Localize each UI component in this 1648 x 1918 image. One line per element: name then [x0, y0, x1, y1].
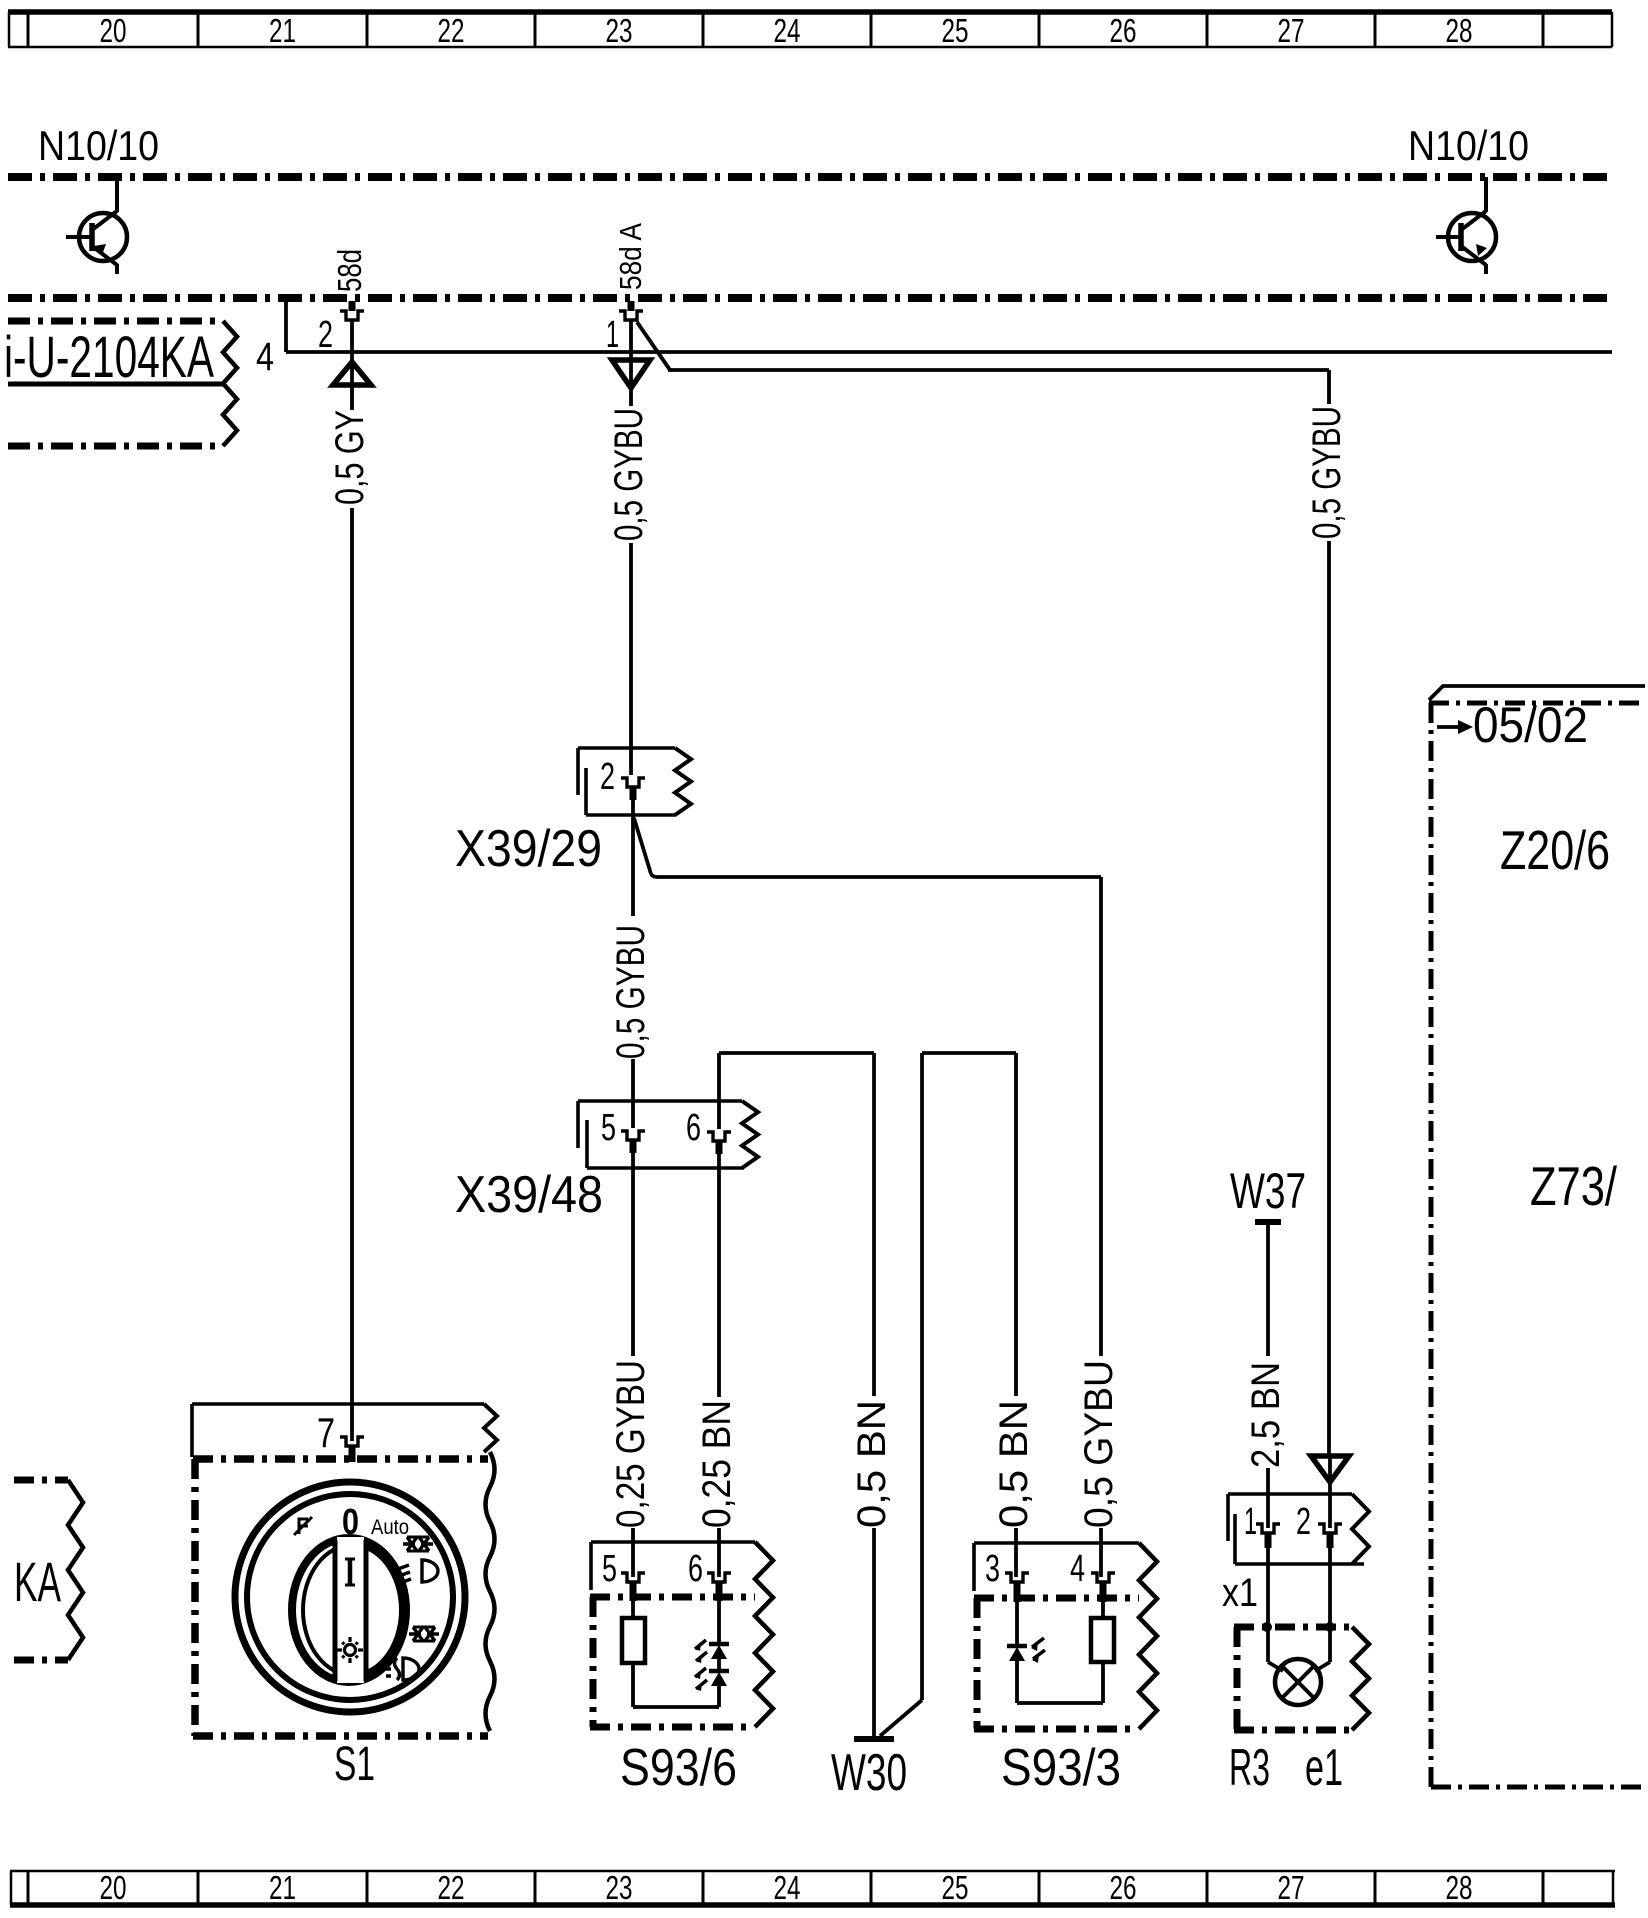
dial fog lamp icon — [386, 1658, 419, 1680]
pin 6 of X39/48 — [686, 1107, 731, 1154]
svg-text:0,5 BN: 0,5 BN — [992, 1400, 1036, 1528]
control unit box KA — [14, 1480, 83, 1660]
svg-text:20: 20 — [100, 12, 127, 49]
LED in S93/3 — [1007, 1602, 1045, 1703]
dial tail light icon lower — [409, 1627, 439, 1641]
module box right dash-dot bottom edge — [1431, 1785, 1645, 1790]
rotary dial of S1 outer rings — [235, 1482, 465, 1712]
svg-text:X39/48: X39/48 — [455, 1166, 603, 1224]
wire 0,25 BN X39/48 pin 6 to S93/6 pin 6 — [717, 1154, 721, 1577]
svg-text:e1: e1 — [1305, 1739, 1343, 1797]
bottom wire in S93/3 — [1017, 1701, 1103, 1705]
S93/3 inner dash-dot box — [974, 1598, 1139, 1729]
connector arrow down at x1 pin 2 — [1311, 1456, 1349, 1482]
svg-text:28: 28 — [1446, 12, 1473, 49]
svg-text:0,5 GYBU: 0,5 GYBU — [1077, 1360, 1121, 1528]
svg-text:23: 23 — [606, 1869, 633, 1906]
pin 3 of S93/3 — [985, 1548, 1029, 1602]
svg-text:0,25 GYBU: 0,25 GYBU — [609, 1360, 653, 1528]
svg-text:7: 7 — [317, 1409, 335, 1456]
lamp R3 dash-dot box — [1234, 1627, 1369, 1730]
dial parking light icon — [294, 1517, 312, 1535]
wire 0,5 BN from S93/3 pin 3 over to W30 terminal — [880, 1053, 1016, 1736]
connector arrow down on wire to X39/29 — [612, 360, 650, 388]
svg-text:0,5 GYBU: 0,5 GYBU — [607, 408, 651, 541]
transistor symbol right — [1436, 177, 1496, 274]
svg-text:4: 4 — [1070, 1548, 1085, 1590]
dial low beam icon — [398, 1560, 438, 1583]
svg-text:2: 2 — [318, 314, 333, 356]
svg-text:Z20/6: Z20/6 — [1500, 819, 1610, 881]
svg-text:2,5 BN: 2,5 BN — [1244, 1362, 1288, 1468]
svg-text:23: 23 — [606, 12, 633, 49]
svg-text:2: 2 — [600, 756, 615, 798]
svg-text:58d A: 58d A — [613, 223, 648, 290]
wires from x1 to lamp — [1262, 1548, 1335, 1671]
pin 1 of x1 — [1244, 1501, 1280, 1548]
svg-text:i-U-2104KA: i-U-2104KA — [4, 325, 214, 390]
transistor symbol left — [66, 177, 127, 274]
svg-text:2: 2 — [1296, 1501, 1311, 1543]
svg-text:4: 4 — [256, 335, 274, 379]
svg-text:N10/10: N10/10 — [38, 122, 159, 169]
wire branch X39/29 to S93/3 pin 4 — [634, 818, 1101, 1577]
svg-text:1: 1 — [1244, 1501, 1257, 1543]
pin 7 of S1 — [317, 1409, 364, 1462]
svg-text:Z73/: Z73/ — [1530, 1155, 1618, 1217]
svg-text:20: 20 — [100, 1869, 127, 1906]
position mark I — [348, 1559, 353, 1585]
svg-text:26: 26 — [1110, 12, 1137, 49]
svg-text:24: 24 — [774, 12, 801, 49]
S93/6 inner dash-dot box — [590, 1597, 755, 1727]
connector X39/48 box — [578, 1101, 758, 1168]
control unit N10/10 upper dash-dot border — [8, 173, 1612, 181]
svg-text:Auto: Auto — [371, 1516, 409, 1539]
arrow to 05/02 — [1437, 720, 1473, 734]
svg-text:0,5 GYBU: 0,5 GYBU — [609, 925, 653, 1059]
control unit box i-U-2104KA — [4, 321, 237, 446]
connector X39/29 box — [578, 748, 691, 815]
lamp bulb symbol R3 — [1275, 1659, 1321, 1705]
knob of S1 — [292, 1537, 406, 1683]
switch S93/3 outer box — [974, 1543, 1157, 1729]
switch S93/6 outer box — [591, 1542, 773, 1727]
bottom wire in S93/6 — [633, 1705, 719, 1709]
svg-text:6: 6 — [688, 1548, 703, 1590]
module box right dash-dot left edge — [1429, 703, 1434, 1787]
svg-text:26: 26 — [1110, 1869, 1137, 1906]
svg-text:X39/29: X39/29 — [455, 820, 602, 878]
svg-text:21: 21 — [269, 1869, 296, 1906]
svg-text:1: 1 — [606, 314, 619, 356]
svg-text:05/02: 05/02 — [1473, 697, 1588, 753]
pin 5 of S93/6 — [602, 1548, 645, 1601]
svg-text:3: 3 — [985, 1548, 1000, 1590]
svg-text:W37: W37 — [1230, 1163, 1306, 1219]
terminal 58d pin 2 socket at bus — [318, 301, 364, 356]
pin 2 of X39/29 — [600, 756, 645, 800]
light switch S1 outer box — [192, 1404, 497, 1457]
svg-text:0,25 BN: 0,25 BN — [695, 1400, 739, 1528]
wire 0,5 GYBU right vertical to x1 pin 2 — [1327, 541, 1331, 1456]
svg-text:0,5 GYBU: 0,5 GYBU — [1305, 406, 1349, 539]
svg-text:27: 27 — [1278, 1869, 1305, 1906]
resistor in S93/6 — [622, 1601, 645, 1707]
connector x1 box — [1228, 1494, 1369, 1564]
bottom coordinate ruler — [10, 1869, 1615, 1906]
svg-text:24: 24 — [774, 1869, 801, 1906]
pin 4 of S93/3 — [1070, 1548, 1115, 1602]
wire branch from pin 1 diagonal to horizontal net — [637, 322, 1329, 404]
svg-text:S1: S1 — [334, 1738, 375, 1791]
svg-text:25: 25 — [942, 1869, 969, 1906]
svg-text:0,5 GY: 0,5 GY — [328, 410, 372, 505]
terminal 58d A pin 1 socket at bus — [606, 301, 643, 356]
svg-text:W30: W30 — [831, 1744, 907, 1802]
svg-text:25: 25 — [942, 12, 969, 49]
svg-text:22: 22 — [438, 1869, 465, 1906]
svg-text:22: 22 — [438, 12, 465, 49]
svg-text:N10/10: N10/10 — [1408, 122, 1529, 169]
control unit N10/10 lower dash-dot border — [8, 294, 1612, 302]
terminal W37 — [1230, 1163, 1306, 1528]
svg-text:27: 27 — [1278, 12, 1305, 49]
svg-text:5: 5 — [602, 1548, 617, 1590]
svg-text:0,5 BN: 0,5 BN — [850, 1400, 894, 1528]
sun symbol on knob — [337, 1637, 363, 1663]
wire 0,5 GYBU from X39/29 to X39/48 — [631, 800, 635, 1128]
svg-text:6: 6 — [686, 1107, 701, 1149]
pin 5 of X39/48 — [601, 1107, 645, 1153]
svg-text:5: 5 — [601, 1107, 616, 1149]
top coordinate ruler — [8, 12, 1612, 49]
svg-text:x1: x1 — [1222, 1571, 1258, 1615]
wire net from pin 4 (riser and horizontal) — [286, 300, 1612, 352]
svg-text:0: 0 — [342, 1501, 359, 1542]
connector arrow up on wire 0,5 GY — [333, 362, 371, 385]
resistor in S93/3 — [1091, 1602, 1114, 1703]
module box right top edge — [1429, 686, 1645, 703]
dial tail light icon upper — [403, 1537, 433, 1551]
svg-text:28: 28 — [1446, 1869, 1473, 1906]
LED in S93/6 — [695, 1601, 729, 1707]
ground terminal W30 — [854, 1736, 894, 1742]
svg-text:S93/3: S93/3 — [1001, 1739, 1121, 1797]
svg-text:KA: KA — [14, 1550, 61, 1613]
wire 0,5 GY from terminal 58d to S1 pin 7 — [350, 320, 354, 1441]
wire 0,5 GYBU from terminal 58d A down to X39/29 — [629, 320, 633, 775]
wire 0,25 GYBU X39/48 pin 5 to S93/6 pin 5 — [631, 1153, 635, 1577]
pin 6 of S93/6 — [688, 1548, 731, 1601]
S1 dash-dot box — [193, 1452, 495, 1736]
pin 2 of x1 — [1296, 1501, 1342, 1548]
svg-text:S93/6: S93/6 — [620, 1739, 737, 1797]
svg-text:21: 21 — [269, 12, 296, 49]
wire 0,5 BN from X39/48 pin 6 over to W30 — [719, 1053, 874, 1738]
svg-text:58d: 58d — [331, 249, 368, 292]
svg-text:R3: R3 — [1229, 1739, 1270, 1797]
